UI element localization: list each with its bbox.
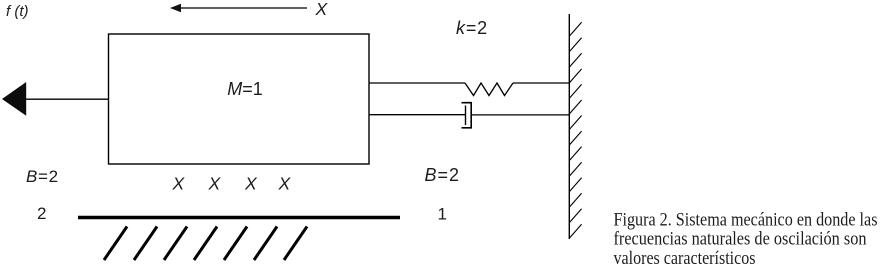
wire from mass to spring	[369, 82, 465, 84]
svg-text:Figura 2. Sistema mecánico en: Figura 2. Sistema mecánico en donde las	[614, 209, 878, 230]
label f(t)	[6, 3, 29, 20]
friction marks X X X X under mass	[172, 174, 292, 194]
svg-text:1: 1	[438, 205, 447, 224]
spring k	[465, 83, 513, 96]
wire from damper to wall	[471, 114, 569, 116]
svg-text:X: X	[208, 174, 222, 194]
svg-text:f (t): f (t)	[6, 3, 29, 20]
mass M=1 box	[109, 34, 370, 164]
svg-text:B=2: B=2	[26, 167, 59, 186]
wall (fixed support, right)	[568, 14, 570, 239]
svg-text:valores característicos: valores característicos	[614, 248, 756, 269]
wire from mass to damper	[369, 114, 466, 116]
force arrow (big solid triangle, pointing left)	[2, 82, 109, 116]
svg-text:M=1: M=1	[227, 79, 263, 99]
svg-text:2: 2	[37, 204, 46, 223]
svg-text:frecuencias naturales de oscil: frecuencias naturales de oscilación son	[614, 229, 867, 250]
label M=1	[227, 79, 263, 99]
svg-text:B=2: B=2	[425, 165, 461, 185]
svg-text:X: X	[278, 174, 292, 194]
figure caption	[614, 209, 878, 269]
wire from spring to wall	[513, 82, 569, 84]
label B=2 (left)	[26, 167, 59, 186]
label X (top)	[315, 0, 329, 19]
svg-text:X: X	[244, 174, 258, 194]
damper B (piston)	[462, 103, 472, 128]
displacement arrow X (top, pointing left)	[170, 4, 307, 12]
svg-text:X: X	[315, 0, 329, 19]
ground line (thick)	[78, 216, 400, 220]
node 2	[37, 204, 46, 223]
node 1	[438, 205, 447, 224]
svg-text:k=2: k=2	[456, 18, 488, 38]
ground hatching (thick diagonal strokes)	[104, 227, 307, 261]
svg-text:X: X	[172, 174, 186, 194]
wall hatching	[569, 22, 581, 238]
label k=2	[456, 18, 488, 38]
label B=2 (right)	[425, 165, 461, 185]
